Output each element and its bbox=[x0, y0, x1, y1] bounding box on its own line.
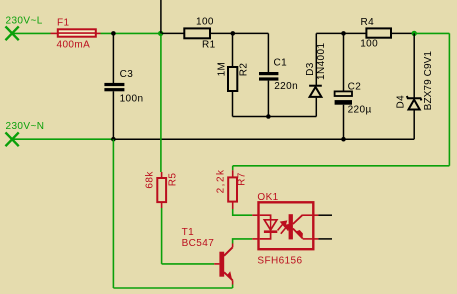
resistor R2 bbox=[228, 33, 237, 116]
OK1 phototransistor bbox=[289, 214, 313, 239]
junction R2 top bbox=[231, 31, 236, 36]
wire N rail bbox=[113, 138, 414, 140]
svg-text:SFH6156: SFH6156 bbox=[257, 255, 302, 266]
wire collector to OK1 pin2 bbox=[233, 239, 253, 244]
resistor R4 bbox=[366, 28, 391, 37]
wire to top edge bbox=[160, 0, 162, 33]
svg-text:R4: R4 bbox=[361, 17, 375, 28]
OK1 light arrows bbox=[278, 221, 290, 233]
wire R5 to base corner bbox=[161, 208, 163, 264]
wire OK1 right pin2 stub bbox=[313, 238, 318, 240]
svg-text:F1: F1 bbox=[57, 17, 70, 28]
wire R7 to OK1 pin1 bbox=[233, 209, 253, 215]
wire node to right corner bbox=[414, 32, 449, 34]
svg-text:2,2k: 2,2k bbox=[216, 168, 227, 193]
wire emitter down bbox=[232, 285, 234, 289]
svg-text:220n: 220n bbox=[274, 81, 298, 92]
svg-text:1M: 1M bbox=[217, 62, 228, 77]
wire mid rail R2-C1-D3 bbox=[233, 116, 317, 118]
wire OK1 right pin1 bbox=[318, 214, 332, 216]
wire R4 to node bbox=[391, 32, 414, 34]
wire sense line down bbox=[160, 33, 162, 172]
svg-text:R2: R2 bbox=[238, 63, 249, 77]
zener diode D4 bbox=[407, 33, 422, 139]
junction N rail bbox=[111, 137, 116, 142]
capacitor C1 bbox=[259, 33, 278, 116]
svg-text:R1: R1 bbox=[202, 40, 216, 51]
fuse F1 bbox=[58, 29, 96, 36]
svg-text:400mA: 400mA bbox=[57, 40, 91, 51]
wire emitter return down bbox=[112, 139, 114, 288]
wire to R7 top bbox=[233, 165, 450, 167]
transistor T1 base stub bbox=[214, 263, 219, 265]
wire fuse right stub bbox=[96, 32, 101, 34]
capacitor C2 (polarized) bbox=[335, 33, 352, 139]
svg-text:C2: C2 bbox=[348, 82, 362, 93]
wire emitter return bottom bbox=[113, 287, 232, 289]
wire R1 to R2 bbox=[210, 32, 233, 34]
svg-text:230V~N: 230V~N bbox=[6, 121, 45, 132]
resistor R7 bbox=[228, 170, 237, 209]
junction C2 bottom bbox=[341, 137, 346, 142]
svg-text:R5: R5 bbox=[168, 173, 179, 187]
svg-text:R7: R7 bbox=[237, 172, 248, 186]
svg-text:1N4001: 1N4001 bbox=[316, 43, 327, 80]
wire right edge down bbox=[448, 33, 450, 165]
wire OK1 right pin2 bbox=[318, 238, 332, 240]
svg-text:BZX79 C9V1: BZX79 C9V1 bbox=[423, 51, 434, 111]
junction D4 top (green) bbox=[412, 31, 417, 36]
wire OK1 pin2 stub bbox=[252, 238, 258, 240]
junction node sense (green) bbox=[158, 31, 163, 36]
svg-text:68k: 68k bbox=[144, 171, 155, 189]
wire OK1 right pin1 stub bbox=[313, 214, 318, 216]
wire L to fuse bbox=[12, 32, 51, 34]
connector X1 (230V~L) bbox=[6, 27, 18, 39]
svg-text:T1: T1 bbox=[182, 227, 195, 238]
resistor R1 bbox=[184, 28, 210, 38]
optocoupler OK1 box bbox=[259, 202, 314, 249]
svg-text:100: 100 bbox=[360, 39, 378, 50]
wire N to junction bbox=[12, 138, 113, 140]
wire R7 top lead bbox=[232, 166, 234, 171]
wire fuse to node bbox=[101, 32, 161, 34]
wire OK1 pin1 stub bbox=[252, 214, 258, 216]
connector X2 (230V~N) bbox=[6, 133, 18, 145]
svg-text:C3: C3 bbox=[120, 69, 134, 80]
svg-text:230V~L: 230V~L bbox=[6, 16, 43, 27]
svg-text:BC547: BC547 bbox=[182, 238, 215, 249]
OK1 LED bbox=[260, 215, 278, 239]
wire node to R1 bbox=[161, 32, 185, 34]
svg-text:100n: 100n bbox=[120, 93, 144, 104]
capacitor C3 bbox=[104, 83, 124, 139]
junction C2 top bbox=[341, 31, 346, 36]
wire fuse left stub bbox=[51, 32, 59, 34]
transistor T1 bbox=[219, 244, 232, 285]
junction C3 top bbox=[111, 31, 116, 36]
wire base horizontal bbox=[162, 263, 215, 265]
svg-text:D4: D4 bbox=[395, 95, 406, 109]
wire R2 to C1 corner bbox=[233, 32, 269, 34]
diode D3 bbox=[309, 33, 322, 116]
wire D3 to R4 bbox=[316, 32, 366, 34]
svg-text:D3: D3 bbox=[305, 62, 316, 76]
svg-text:220µ: 220µ bbox=[348, 105, 372, 116]
junction C1 bottom bbox=[266, 114, 271, 119]
svg-text:100: 100 bbox=[196, 16, 214, 27]
wire C3 top lead bbox=[112, 33, 114, 83]
resistor R5 bbox=[157, 172, 166, 208]
svg-text:C1: C1 bbox=[274, 58, 288, 69]
